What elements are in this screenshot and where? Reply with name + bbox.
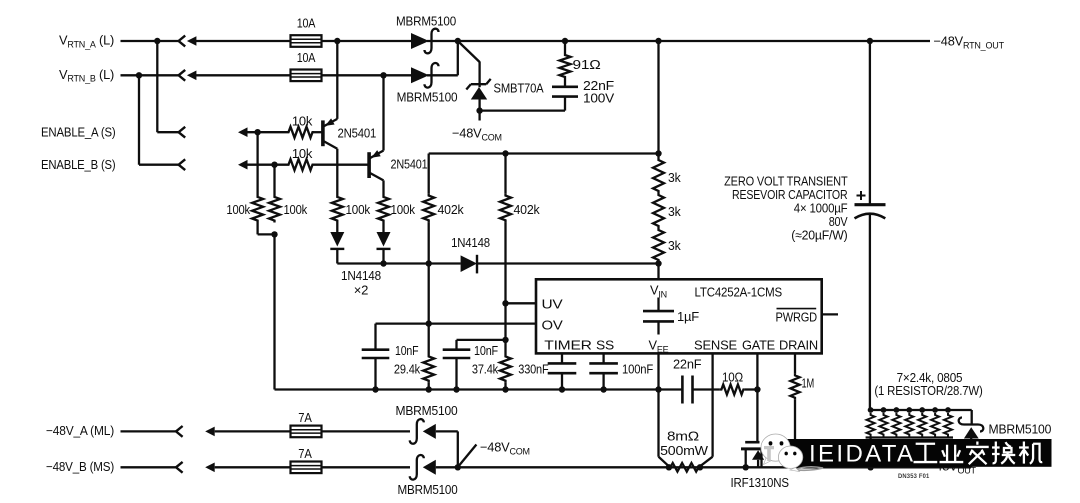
resistor R15 10ohm (720, 385, 745, 395)
junction C5 tee (502, 337, 508, 343)
svg-text:1N4148: 1N4148 (341, 268, 381, 283)
junction R9 on bus (426, 386, 432, 392)
pin stub PWRGD (822, 313, 838, 315)
wire VEE bus (275, 388, 683, 390)
TVS D6 SMBT70A (466, 62, 490, 111)
wire UV to IC (506, 302, 537, 304)
wire C5 to VEE bus (455, 358, 457, 390)
resistor R5 100k (332, 195, 343, 223)
svg-text:10k: 10k (292, 146, 313, 161)
svg-text:10nF: 10nF (474, 343, 498, 358)
fuse F3 7A (291, 426, 322, 438)
diode D3 1N4148 (330, 232, 344, 264)
svg-text:PWRGD: PWRGD (776, 310, 818, 325)
label 10A (F2) (297, 50, 316, 65)
connector chevron ENABLE_A (179, 127, 186, 138)
junction Rs left (666, 464, 672, 470)
junction reservoir cap tap (867, 38, 873, 44)
svg-text:7A: 7A (298, 446, 312, 461)
label 402k (R7) (438, 202, 465, 217)
resistor R16 8mohm 500mW (669, 463, 700, 472)
wire D7 to corner (436, 431, 458, 467)
svg-text:ENABLE_B (S): ENABLE_B (S) (41, 157, 116, 172)
junction C5 on bus (453, 386, 459, 392)
wire bank top rail (870, 409, 972, 411)
label 2N5401 (Q2) (391, 157, 428, 172)
svg-text:8mΩ: 8mΩ (667, 429, 700, 444)
label MBRM5100 (D1) (396, 14, 456, 29)
svg-text:330nF: 330nF (518, 362, 549, 377)
svg-text:2N5401: 2N5401 (338, 126, 377, 141)
resistor R10 37.4k (500, 340, 511, 390)
wire UV to C5 tee (504, 303, 506, 340)
node label ENABLE_A (S) (41, 125, 116, 140)
connector chevron ENABLE_B (179, 159, 186, 170)
wire ENABLE_B riser (139, 75, 179, 164)
connector arrow -48V_A (205, 427, 291, 437)
resistor R14 3k (653, 228, 664, 264)
svg-text:−48V_A (ML): −48V_A (ML) (46, 423, 114, 438)
svg-text:MBRM5100: MBRM5100 (398, 482, 458, 497)
resistor R9 29.4k (423, 324, 434, 390)
junction 100k pair (271, 231, 277, 237)
junction 402k-2 top (502, 150, 508, 156)
node label V_RTN_A (L) (59, 33, 114, 50)
svg-text:10nF: 10nF (395, 343, 419, 358)
junction GATE node (754, 386, 760, 392)
pin label TIMER (544, 338, 592, 353)
pointer line -48V COM (460, 445, 477, 466)
fuse F1 10A (291, 35, 322, 47)
junction C9 on bus (600, 386, 606, 392)
wire DRAIN pin drop (794, 353, 796, 373)
wire D1 to node (427, 40, 458, 42)
junction R3 tap (ENABLE_A) (254, 129, 260, 135)
node label -48V RTN_OUT (934, 34, 1005, 51)
wire R2 to Q2 base (314, 164, 368, 166)
svg-text:UV: UV (542, 297, 564, 312)
wire D5 to VIN node (477, 262, 659, 264)
junction -48V COM node (476, 107, 482, 113)
label 22nF (C10) (673, 357, 702, 372)
label 330nF (C8) (518, 362, 549, 377)
svg-text:500mW: 500mW (660, 443, 709, 458)
label 1N4148 (D5) (451, 235, 490, 250)
node -48V RTN rail (455, 38, 461, 44)
capacitor C6 reservoir 4x1000uF (855, 191, 886, 410)
wire UV/OV top rail (429, 152, 659, 154)
svg-text:402k: 402k (514, 202, 541, 217)
label 10ohm (R15) (722, 370, 744, 385)
label 1N4148 x2 (341, 268, 381, 298)
node label ENABLE_B (S) (41, 157, 116, 172)
resistor R8 402k (500, 154, 511, 304)
svg-text:100k: 100k (346, 202, 371, 217)
svg-text:−48V_B (MS): −48V_B (MS) (46, 459, 114, 474)
junction V_RTN_A / ENABLE_A tap (154, 38, 160, 44)
label 100k (R4) (284, 202, 308, 217)
resistor R6 100k (378, 195, 389, 223)
wire ENABLE_A riser (157, 41, 178, 132)
resistor R13 3k (653, 193, 664, 228)
capacitor C9 100nF (589, 353, 618, 389)
junction 3k chain tap (655, 38, 661, 44)
wire 100k pair to VEE bus (273, 234, 275, 389)
op-amp U1 LTC4252A-1CMS box (536, 279, 822, 353)
pin label VIN (650, 283, 667, 300)
svg-text:SMBT70A: SMBT70A (494, 81, 545, 96)
resistor R7 402k (423, 154, 434, 264)
svg-text:100k: 100k (226, 202, 250, 217)
label 91ohm (R11) (573, 57, 602, 72)
wire 402k-1 to OV node (428, 264, 430, 324)
svg-text:10A: 10A (297, 16, 316, 31)
connector arrow ENABLE_A (238, 127, 287, 137)
label 3k (R12) (668, 170, 681, 185)
resistor R1 10k (287, 127, 314, 138)
svg-text:10A: 10A (297, 50, 316, 65)
wire F3 to D7 (321, 430, 410, 432)
label 10nF (C4) (395, 343, 419, 358)
junction T1 emitter tap (334, 38, 340, 44)
diode D7 MBRM5100 (410, 419, 436, 444)
pin label SS (596, 338, 614, 353)
wire -48V_B lead (121, 466, 177, 468)
wire GATE pin drop (756, 353, 758, 442)
label MBRM5100 (D7) (396, 403, 458, 418)
label 500mW (R16) (660, 443, 709, 458)
svg-text:DRAIN: DRAIN (779, 338, 818, 353)
wire VEE diag to Rs (659, 457, 669, 467)
pin label PWRGD (776, 309, 818, 325)
label MBRM5100 (D8) (398, 482, 458, 497)
pin label DRAIN (779, 338, 818, 353)
junction 91ohm tap (562, 38, 568, 44)
wire F1 to diode D1 (322, 40, 411, 42)
diode D2 MBRM5100 (411, 63, 439, 88)
diode D5 1N4148 (461, 255, 477, 274)
wire bank rail to D9 (971, 410, 973, 425)
svg-text:2N5401: 2N5401 (391, 157, 428, 172)
svg-text:MBRM5100: MBRM5100 (396, 403, 458, 418)
connector chevron -48V_A (176, 426, 183, 437)
svg-text:×2: ×2 (354, 283, 369, 298)
svg-text:LTC4252A-1CMS: LTC4252A-1CMS (695, 285, 783, 300)
label 7A (F4) (298, 446, 312, 461)
wire -48V RTN rail (458, 40, 930, 42)
diode D4 1N4148 (377, 232, 391, 264)
junction T2 emitter tap (380, 72, 386, 78)
wire 3k chain riser (657, 41, 659, 154)
wire bus to VIN pin (657, 264, 659, 281)
watermark text CJK huan (992, 442, 1015, 464)
resistor R2 10k (287, 159, 314, 170)
wire -48V_A lead (121, 430, 177, 432)
wire reservoir cap riser (869, 41, 871, 204)
label 10k (R2) (292, 146, 313, 161)
wire node to TVS (458, 41, 480, 62)
label 100k (R5) (346, 202, 371, 217)
junction UV node (502, 300, 508, 306)
capacitor C10 22nF (682, 376, 692, 404)
label 7x2.4k 0805 (897, 370, 963, 385)
svg-text:IEIDATA: IEIDATA (809, 441, 913, 468)
label 10nF (C5) (474, 343, 498, 358)
junction R10 on bus (502, 386, 508, 392)
svg-text:MBRM5100: MBRM5100 (397, 90, 458, 105)
pin label SENSE (694, 338, 737, 353)
connector arrow A (187, 36, 292, 46)
svg-text:22nF: 22nF (673, 357, 702, 372)
wire R3 bottom to R4 bottom (258, 223, 275, 235)
connector arrow -48V_B (205, 463, 291, 473)
wire OV to IC (429, 322, 536, 324)
junction C8 on bus (559, 386, 565, 392)
label 7A (F3) (298, 410, 312, 425)
connector arrow ENABLE_B (238, 160, 287, 170)
label reservoir capacitor note (724, 174, 848, 243)
watermark text IEIDATA (809, 441, 913, 468)
wire diode bus (337, 262, 460, 264)
wire F4 to D8 (321, 466, 410, 468)
label 402k (R8) (514, 202, 541, 217)
svg-text:7A: 7A (298, 410, 312, 425)
connector chevron B (179, 70, 186, 81)
diode D1 MBRM5100 (411, 29, 439, 54)
watermark text CJK jiao (966, 442, 989, 465)
capacitor C5 10nF (443, 340, 506, 358)
watermark text CJK ye (940, 445, 964, 462)
wire R1 to Q1 base (314, 131, 322, 133)
connector chevron A (179, 36, 186, 47)
svg-text:SENSE: SENSE (694, 338, 737, 353)
watermark text CJK ji (1019, 442, 1042, 464)
junction bank bottom on rail (867, 464, 873, 470)
junction R4 tap (ENABLE_B) (271, 162, 277, 168)
diode D9 MBRM5100 (959, 418, 984, 468)
transistor Q2 2N5401 (369, 150, 383, 180)
label 100k (R6) (391, 202, 416, 217)
svg-text:GATE: GATE (742, 338, 775, 353)
fuse F4 7A (291, 462, 322, 474)
svg-text:1M: 1M (802, 376, 815, 391)
wire Q1 emitter riser (336, 41, 338, 119)
svg-text:MBRM5100: MBRM5100 (989, 422, 1052, 437)
wire Q1 collector drop (336, 149, 338, 195)
resistor R11 91ohm (560, 41, 571, 87)
svg-text:SS: SS (596, 338, 614, 353)
label 2N5401 (Q1) (338, 126, 377, 141)
svg-text:37.4k: 37.4k (472, 362, 499, 377)
label 1 RESISTOR/28.7W (874, 383, 982, 398)
label MBRM5100 (D9) (989, 422, 1052, 437)
resistor R3 100k (252, 132, 263, 222)
label MBRM5100 (D2) (397, 90, 458, 105)
label 3k (R14) (668, 238, 681, 253)
svg-text:IRF1310NS: IRF1310NS (731, 475, 789, 490)
svg-text:100k: 100k (284, 202, 308, 217)
connector arrow B (187, 71, 292, 81)
wire R15 to GATE (745, 388, 758, 390)
svg-text:100k: 100k (391, 202, 416, 217)
transistor Q3 IRF1310NS (741, 442, 764, 467)
junction C4 on bus (372, 386, 378, 392)
wire SENSE pin drop (700, 353, 713, 466)
label IRF1310NS (731, 475, 789, 490)
stub -48V COM (478, 111, 480, 121)
pin label VEE (649, 338, 669, 355)
diode D8 MBRM5100 (410, 455, 436, 480)
label SMBT70A (494, 81, 545, 96)
label 1uF (C7) (677, 309, 699, 324)
capacitor C4 10nF (362, 350, 390, 358)
transistor Q1 2N5401 (323, 118, 337, 148)
watermark black banner (786, 439, 1052, 467)
svg-text:ENABLE_A (S): ENABLE_A (S) (41, 125, 116, 140)
pin label GATE (742, 338, 775, 353)
svg-text:10k: 10k (292, 114, 313, 129)
svg-text:1µF: 1µF (677, 309, 699, 324)
svg-text:(1 RESISTOR/28.7W): (1 RESISTOR/28.7W) (874, 383, 982, 398)
wire C4 to VEE bus (374, 358, 376, 390)
label 100k (R3) (226, 202, 250, 217)
node label V_RTN_B (L) (59, 67, 114, 84)
label 10A (F1) (297, 16, 316, 31)
node label -48V_B (MS) (46, 459, 114, 474)
wire R5 to D3 (336, 223, 338, 233)
resistor R12 3k (653, 154, 664, 194)
svg-text:91Ω: 91Ω (573, 57, 602, 72)
label 1M (R17) (802, 376, 815, 391)
wire junction to connector A (157, 40, 178, 42)
wire R17 to output rail (794, 400, 796, 468)
label 100V (C3) (583, 90, 615, 105)
resistor R17 1M (790, 373, 799, 399)
watermark grey swoosh (795, 467, 823, 471)
wire D2 to node riser (427, 41, 458, 75)
junction D4 on bus (380, 260, 386, 266)
wire junction to connector B (139, 74, 179, 76)
svg-text:3k: 3k (668, 238, 681, 253)
junction V_RTN_B / ENABLE_B tap (136, 72, 142, 78)
svg-text:OV: OV (542, 318, 564, 333)
svg-text:402k: 402k (438, 202, 465, 217)
watermark wechat icon (761, 434, 803, 472)
label 22nF (C3) (583, 78, 614, 93)
svg-text:TIMER: TIMER (544, 338, 592, 353)
wire C10 to SENSE line (693, 388, 720, 390)
junction VIN node on bus (655, 260, 661, 266)
junction Q3 source (743, 464, 749, 470)
label DN353 F01 (898, 473, 930, 480)
label 8mohm (R16) (667, 429, 700, 444)
svg-text:29.4k: 29.4k (394, 362, 421, 377)
svg-text:MBRM5100: MBRM5100 (396, 14, 456, 29)
wire TVS node to C3 (480, 96, 565, 110)
node label -48V_A (ML) (46, 423, 114, 438)
net label -48V COM (bottom) (480, 440, 530, 457)
label 100nF (C9) (622, 362, 653, 377)
junction 402k-1 on bus (426, 260, 432, 266)
label 29.4k (R9) (394, 362, 421, 377)
wire VEE pin drop (657, 353, 659, 456)
capacitor C7 1uF (internal bypass) (643, 298, 674, 335)
junction OV node (426, 320, 432, 326)
svg-text:100V: 100V (583, 90, 615, 105)
svg-text:(≈20µF/W): (≈20µF/W) (791, 228, 847, 243)
junction -48V COM rail node (455, 464, 461, 470)
watermark text CJK gong (914, 444, 938, 462)
pin label UV (542, 297, 564, 312)
label 37.4k (R10) (472, 362, 499, 377)
wire Q2 collector drop (382, 180, 384, 195)
wire F2 to diode D2 (322, 74, 411, 76)
resistor R4 100k (269, 165, 280, 223)
fuse F2 10A (291, 70, 322, 82)
net label -48V OUT (928, 459, 977, 476)
svg-text:3k: 3k (668, 170, 681, 185)
capacitor C8 330nF (548, 353, 577, 389)
wire V_RTN_A to junction (121, 40, 158, 42)
junction VEE on bus (655, 386, 661, 392)
svg-text:1N4148: 1N4148 (451, 235, 490, 250)
wire -48V output rail (436, 466, 971, 468)
label LTC4252A-1CMS (695, 285, 783, 300)
wire R6 to D4 (382, 223, 384, 233)
resistor bank 7x2.4k (866, 407, 953, 467)
pin label OV (542, 318, 564, 333)
svg-text:3k: 3k (668, 204, 681, 219)
junction Rs right (697, 464, 703, 470)
wire Q2 emitter riser (382, 75, 384, 150)
svg-text:10Ω: 10Ω (722, 370, 744, 385)
svg-text:100nF: 100nF (622, 362, 653, 377)
capacitor C3 22nF 100V (552, 87, 578, 97)
connector chevron -48V_B (176, 462, 183, 473)
svg-text:DN353 F01: DN353 F01 (898, 473, 930, 480)
junction 3k top rail (655, 150, 661, 156)
wire OV to C4 (376, 324, 429, 350)
label 10k (R1) (292, 114, 313, 129)
label 3k (R13) (668, 204, 681, 219)
net label -48V COM (452, 126, 502, 143)
wire V_RTN_B to junction (121, 74, 140, 76)
